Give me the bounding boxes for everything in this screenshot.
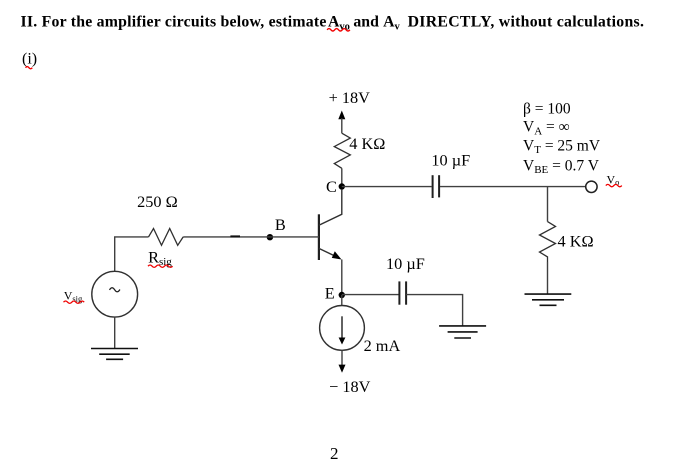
node junction to load resistor (547, 187, 549, 222)
parameters text block (523, 101, 601, 176)
resistor RC 4 KOhm (collector) (334, 133, 350, 168)
svg-text:250 Ω: 250 Ω (137, 192, 178, 211)
svg-text:2: 2 (330, 444, 339, 463)
+18V supply arrow (338, 111, 345, 134)
svg-text:VBE = 0.7 V: VBE = 0.7 V (523, 157, 600, 176)
capacitor C1 10uF (output coupling) (433, 175, 440, 198)
node C junction dot (339, 183, 345, 189)
svg-text:E: E (325, 284, 335, 303)
red squiggle under (i) (26, 67, 33, 69)
overlap dash on base wire (230, 235, 240, 237)
resistor RL 4 KOhm (load) (540, 222, 556, 262)
svg-text:10 µF: 10 µF (431, 151, 470, 170)
wire current source to -18V arrow (341, 350, 343, 365)
red squiggle under Vo (606, 184, 622, 186)
svg-text:and: and (353, 13, 379, 30)
transistor Q1 emitter lead with arrow (319, 248, 342, 295)
svg-text:− 18V: − 18V (329, 377, 371, 396)
red squiggle under Vsig (64, 301, 85, 303)
wire source to ground (114, 317, 116, 348)
node E junction dot (339, 292, 345, 298)
node B junction dot (267, 234, 273, 240)
ground (load) (525, 294, 572, 305)
svg-text:C: C (326, 177, 337, 196)
capacitor C2 10uF (bypass) (399, 281, 406, 304)
svg-text:B: B (275, 215, 286, 234)
svg-text:4 KΩ: 4 KΩ (558, 231, 594, 250)
wire capacitor to output terminal (440, 186, 586, 188)
wire emitter to bypass capacitor (342, 294, 399, 296)
resistor Rsig 250 Ohm (149, 229, 184, 246)
ground (source) (91, 349, 138, 360)
title text (21, 13, 645, 32)
svg-text:DIRECTLY, without calculations: DIRECTLY, without calculations. (408, 13, 645, 30)
current source I1 2mA (320, 306, 365, 351)
wire base to transistor (183, 236, 319, 238)
source Vsig (AC source circle) (92, 271, 138, 317)
-18V supply arrow (339, 365, 346, 373)
svg-text:Av: Av (383, 13, 400, 32)
wire bypass capacitor to ground (406, 295, 463, 326)
wire source to Rsig (115, 237, 149, 271)
svg-text:β = 100: β = 100 (523, 101, 571, 118)
transistor Q1 collector lead (319, 189, 342, 225)
svg-text:VA = ∞: VA = ∞ (523, 119, 570, 138)
svg-text:+ 18V: + 18V (329, 88, 371, 107)
wire node E to current source (341, 295, 343, 306)
wire load resistor to ground (547, 262, 549, 294)
ground (bypass) (439, 326, 486, 338)
svg-text:(i): (i) (22, 51, 37, 68)
svg-text:Rsig: Rsig (148, 248, 172, 268)
wire RC bottom to node C (341, 168, 343, 186)
svg-text:4 KΩ: 4 KΩ (349, 134, 385, 153)
svg-text:2 mA: 2 mA (364, 336, 401, 355)
transistor Q1 base bar (318, 214, 320, 260)
wire node C to coupling capacitor (342, 186, 432, 188)
output terminal Vo (open circle) (586, 181, 597, 192)
svg-text:VT = 25 mV: VT = 25 mV (523, 138, 601, 157)
red squiggle under Rsig (148, 265, 173, 267)
svg-text:10 µF: 10 µF (386, 254, 425, 273)
svg-text:II. For the amplifier circuits: II. For the amplifier circuits below, es… (21, 13, 327, 30)
red squiggle under Avo in title (327, 29, 350, 31)
